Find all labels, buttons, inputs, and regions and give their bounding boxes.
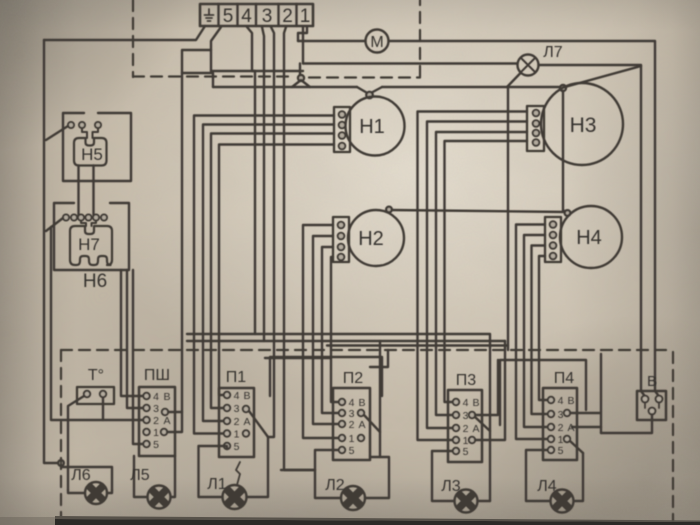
wire bus: switch P1 to burner H1 (4 wires) — [219, 145, 334, 396]
wire: long vertical from y=87 down between switches P3 P4 — [507, 87, 509, 350]
wire: terminal 4 diagonal to supply vertical x=252 — [247, 27, 255, 334]
svg-text:Н1: Н1 — [359, 116, 385, 138]
svg-text:2: 2 — [349, 419, 355, 431]
wire: hop connection at node x=300 to y=87 line — [292, 80, 310, 87]
svg-text:2: 2 — [234, 416, 240, 428]
svg-text:П4: П4 — [554, 370, 575, 387]
svg-text:3: 3 — [558, 409, 564, 421]
H3 connector block — [527, 106, 544, 151]
svg-text:Н4: Н4 — [576, 227, 602, 249]
wire: terminal 5 diagonal down — [211, 27, 221, 71]
wire: P2 right link x=388 — [370, 350, 388, 367]
svg-text:В: В — [163, 391, 170, 403]
P4 pin labels — [558, 395, 575, 457]
lamp L6 enclosure — [61, 467, 112, 490]
H5 terminal pins — [68, 122, 74, 128]
burner H1 — [346, 97, 405, 156]
svg-text:4: 4 — [234, 390, 240, 402]
lamp L4 — [551, 490, 574, 513]
terminal cell dividers — [219, 4, 297, 26]
svg-text:Н3: Н3 — [570, 114, 597, 137]
svg-text:П2: П2 — [343, 370, 364, 387]
switch P2 enclosure — [270, 357, 382, 396]
terminal block XT outer box — [200, 4, 313, 26]
svg-text:1: 1 — [300, 6, 311, 27]
svg-text:4: 4 — [558, 395, 564, 407]
wire bus: switch P3 to burner H3 (4 wires) — [445, 141, 528, 402]
wire: L1 right side up to P1 wiper junction — [247, 437, 268, 497]
svg-text:5: 5 — [463, 446, 469, 458]
lamp L5 enclosure — [134, 456, 175, 497]
wire: terminal 1 down to lamp L7 line — [302, 27, 304, 64]
wire: supply x=182 into PSh right pins — [167, 412, 182, 432]
wire: plug B verticals into pins — [641, 391, 658, 395]
wire: P2 supply drop x=380 from rail to wiper — [379, 341, 381, 457]
wire: H3 node diagonal up to corner x=641 — [565, 66, 641, 87]
node on dashed line x=300 — [298, 75, 304, 81]
wire: main horizontal y=87 left part — [213, 86, 357, 88]
wire: terminal 3 to supply vertical x=264 — [262, 27, 264, 341]
svg-text:4: 4 — [153, 391, 159, 403]
wire: L7 right to vertical x=641 down to plug B — [539, 65, 642, 391]
switch P4 box — [543, 388, 577, 460]
wire: terminal 2 supply vertical down to lamp row link — [284, 27, 315, 470]
svg-text:В: В — [647, 373, 657, 390]
svg-text:ПШ: ПШ — [144, 367, 170, 384]
wire: y=87 dip to burner H1 top node — [357, 87, 382, 94]
svg-text:2: 2 — [282, 6, 293, 27]
wire: L3 right side to enclosure — [478, 500, 490, 502]
svg-text:5: 5 — [153, 439, 159, 451]
wire: T right pin down to PSh feed line — [102, 398, 104, 420]
wire: stub down to node on dashed line — [299, 64, 301, 76]
svg-text:А: А — [472, 423, 479, 435]
wire: H5 pins into element — [82, 128, 98, 138]
wire: P2 pin 5 to lamp L2 — [315, 450, 341, 498]
svg-text:Л7: Л7 — [543, 44, 563, 61]
wire: T left pin to lamp L6 box — [68, 396, 84, 467]
wire: diagonal from left bus to H7 pin — [46, 218, 63, 231]
svg-text:Л1: Л1 — [207, 476, 227, 493]
wire: diagonal from left bus to H5 pin — [46, 126, 68, 140]
svg-text:4: 4 — [241, 6, 252, 27]
lamp L1 — [223, 485, 247, 509]
burner H2 — [348, 210, 404, 266]
wire: supply rail y=334 — [187, 334, 490, 501]
wire: supply rail y=345.5 — [327, 344, 508, 346]
svg-text:А: А — [163, 415, 170, 427]
switch P2 box — [333, 388, 370, 460]
wiper arm of P3 — [475, 417, 490, 431]
oven element H5 outer box — [63, 113, 131, 181]
switch P1 box — [219, 388, 254, 457]
node at H1 top — [366, 92, 372, 98]
thermostat T switch box — [77, 387, 114, 404]
svg-text:1: 1 — [153, 427, 159, 439]
svg-text:1: 1 — [234, 429, 240, 441]
svg-text:5: 5 — [349, 445, 355, 457]
node on dashed panel border left — [58, 460, 64, 466]
svg-text:Л4: Л4 — [537, 478, 557, 495]
burner H4 — [560, 206, 622, 268]
wire: collector horizontal y=71 — [211, 70, 303, 72]
wire: branch from terminal 1 to lamp L7 line y=64 — [303, 62, 517, 64]
node at H3 top — [560, 85, 566, 91]
wire: y=87 to H3 top node — [382, 86, 561, 88]
lamp L2 — [341, 486, 365, 510]
P3 pin labels — [463, 397, 480, 458]
P2 pin labels — [349, 397, 366, 457]
svg-text:1: 1 — [349, 433, 355, 445]
burner H3 — [541, 83, 623, 165]
node at H2 top right — [386, 207, 392, 213]
oven element H7 outer box — [54, 203, 129, 270]
svg-text:П1: П1 — [226, 369, 247, 386]
wire: motor line y=41 to motor — [298, 40, 366, 42]
plug B box — [637, 391, 666, 420]
svg-text:3: 3 — [262, 6, 273, 27]
dashed control panel enclosure — [61, 350, 673, 525]
wire: supply rail y=341 — [187, 340, 505, 342]
svg-text:Н7: Н7 — [78, 235, 100, 254]
wiper arm of P4 — [570, 441, 583, 453]
wire: P4 contact A row to x=601 — [572, 426, 601, 428]
svg-text:3: 3 — [463, 410, 469, 422]
wiper arm of P2 — [364, 415, 380, 432]
wire: H7 pins into element notch — [81, 221, 96, 227]
svg-text:В: В — [472, 397, 479, 409]
svg-text:3: 3 — [153, 403, 159, 415]
wire bus: switch P4 to burner H4 (4 wires) — [539, 256, 547, 400]
wire: P3 supply drops from rails — [475, 341, 505, 440]
svg-text:Л6: Л6 — [71, 467, 91, 484]
wire: ground terminal to left bus — [44, 26, 205, 40]
svg-text:Л3: Л3 — [441, 478, 461, 495]
svg-text:А: А — [358, 419, 365, 431]
wire: plug B bottom pin to P4 — [601, 415, 652, 434]
heating element H7 body — [70, 226, 112, 265]
lamp L5 — [148, 486, 171, 509]
node at H4 top left — [565, 210, 571, 216]
wire: P1 pin 5 to lamp L1 — [199, 446, 228, 497]
switch P4 enclosure — [500, 360, 586, 425]
lamp L3 — [455, 490, 478, 513]
svg-text:М: М — [370, 34, 383, 51]
svg-text:Н2: Н2 — [358, 228, 384, 250]
svg-text:П3: П3 — [456, 372, 477, 389]
svg-text:Н6: Н6 — [83, 271, 107, 292]
H7 terminal pin row — [63, 215, 69, 221]
wire: y=73 stub from x=182 bus to y=87 line — [182, 73, 213, 87]
heating element H5 body — [74, 138, 107, 166]
wire: motor line continues right then down to plug B — [389, 41, 656, 391]
wire: P3 pin 5 to lamp L3 — [432, 451, 454, 501]
ground symbol in terminal cell — [205, 9, 214, 21]
wire: P4 pin 5 to lamp L4 — [526, 450, 550, 501]
wire: H2 node to H4 node horizontal y=211 — [390, 210, 567, 212]
photo bottom dark edge strip — [0, 516, 700, 525]
svg-text:2: 2 — [463, 423, 469, 435]
switch P3 box — [448, 390, 482, 462]
wire: H3 node down to H4 node — [563, 91, 566, 211]
svg-text:2: 2 — [558, 422, 564, 434]
svg-text:5: 5 — [558, 445, 564, 457]
svg-text:3: 3 — [234, 403, 240, 415]
PSh pin labels — [153, 391, 170, 451]
wire: left bus vertical x=44 down to node at dashed box — [44, 40, 58, 463]
wire: terminal 1 jog to motor line y=41 — [298, 27, 307, 41]
svg-text:2: 2 — [153, 415, 159, 427]
wire: H7 box right side wires down to switch PSh — [121, 270, 143, 444]
wire: P4 right pin to plug B via y=413 — [570, 354, 601, 433]
svg-text:А: А — [243, 416, 250, 428]
svg-text:В: В — [358, 397, 365, 409]
svg-text:В: В — [567, 395, 574, 407]
H1 connector block — [334, 107, 350, 152]
svg-text:5: 5 — [234, 441, 240, 453]
wire: terminal 3 second tap down to switch P1 wiper — [268, 27, 274, 437]
wire bus: switch P2 to burner H2 (4 wires) — [331, 257, 338, 402]
oven switch PSh box — [139, 387, 175, 456]
wire: L2 right side enclosure — [365, 457, 389, 498]
lamp L6 — [85, 482, 107, 504]
svg-text:А: А — [567, 422, 574, 434]
wiper arm of P1 — [249, 411, 268, 437]
svg-text:Н5: Н5 — [81, 145, 103, 164]
wire: P1 area link horizontal y=470 — [281, 469, 315, 471]
svg-text:Л2: Л2 — [325, 477, 345, 494]
H4 connector block — [545, 217, 561, 262]
svg-text:4: 4 — [463, 397, 469, 409]
dashed top enclosure — [133, 0, 420, 78]
wire: terminal 5 branch to x=182 bus — [182, 50, 211, 412]
wire: L6 to L5 lamp row — [68, 490, 112, 493]
svg-text:В: В — [243, 390, 250, 402]
H2 connector block — [333, 217, 349, 262]
lamp L7 — [518, 55, 539, 76]
wire: L4 right side up to P4 wiper — [574, 453, 583, 501]
svg-text:Т°: Т° — [88, 367, 104, 384]
P1 pin labels — [234, 390, 251, 453]
wire: H5 element down to H7 pin row — [79, 166, 94, 216]
svg-text:Л5: Л5 — [130, 467, 150, 484]
svg-text:5: 5 — [223, 6, 234, 27]
wire: H7 left pin down to PSh pin 2A — [51, 227, 143, 420]
motor M — [366, 30, 389, 53]
wire: P1 region horizontal y=358 — [265, 357, 330, 359]
squiggle above L1 — [236, 462, 240, 485]
plug B pins — [642, 396, 649, 403]
wire: L7 bottom-left diagonal to main horizontal y=87 — [507, 73, 521, 87]
